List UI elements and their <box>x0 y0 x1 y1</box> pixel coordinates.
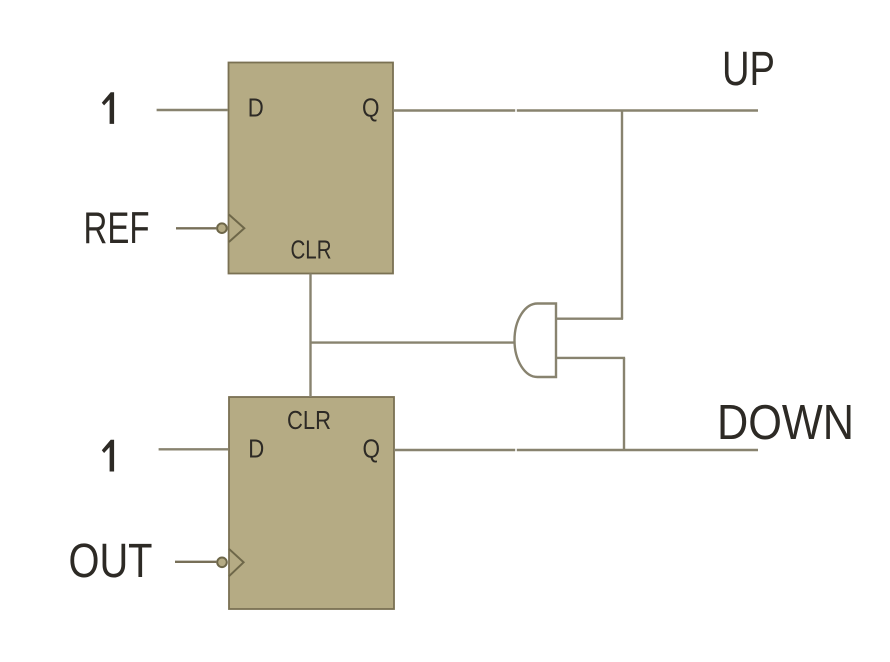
wire: U1 Q to UP net (segment 2) <box>517 109 758 111</box>
wire: AND gate input A horizontal <box>556 318 623 320</box>
wire: constant 1 to U1 D input <box>157 109 228 111</box>
U2 clock pin bubble <box>217 558 227 568</box>
wire: AND gate input B horizontal <box>556 357 625 359</box>
svg-text:OUT: OUT <box>69 535 153 588</box>
wire: AND gate input B down to DOWN net <box>623 358 625 450</box>
svg-text:D: D <box>248 93 264 123</box>
wire: U2 Q to DOWN net (segment 1) <box>394 449 515 451</box>
U1 clock pin bubble <box>217 223 227 233</box>
svg-text:CLR: CLR <box>287 405 331 435</box>
wire: constant 1 to U2 D input <box>159 448 228 450</box>
svg-text:UP: UP <box>722 43 775 96</box>
wire: OUT to U2 clock <box>175 561 216 563</box>
U2 clock pin chevron <box>229 549 244 577</box>
wire: REF to U1 clock <box>176 227 216 229</box>
svg-text:Q: Q <box>362 93 380 123</box>
svg-text:DOWN: DOWN <box>717 396 854 450</box>
wire: AND gate output to CLR net <box>311 341 515 343</box>
wire: UP net down to AND gate input A <box>621 111 623 319</box>
U1 clock pin chevron <box>229 215 244 243</box>
svg-text:REF: REF <box>84 203 150 253</box>
svg-text:Q: Q <box>363 434 381 464</box>
D flip-flop U1 (top) body <box>229 63 394 274</box>
node: constant 1 (U2 D) <box>102 440 114 472</box>
D flip-flop U2 (bottom) body <box>229 397 394 609</box>
node: constant 1 (U1 D) <box>102 92 114 124</box>
wire: U1 CLR to U2 CLR vertical <box>309 274 311 398</box>
AND gate G1 (mirrored, inputs right, output left) <box>515 304 557 378</box>
wire: U2 Q to DOWN net (segment 2) <box>517 449 758 451</box>
svg-text:D: D <box>248 434 264 464</box>
svg-text:CLR: CLR <box>291 235 332 265</box>
wire: U1 Q to UP net (segment 1) <box>393 109 515 111</box>
